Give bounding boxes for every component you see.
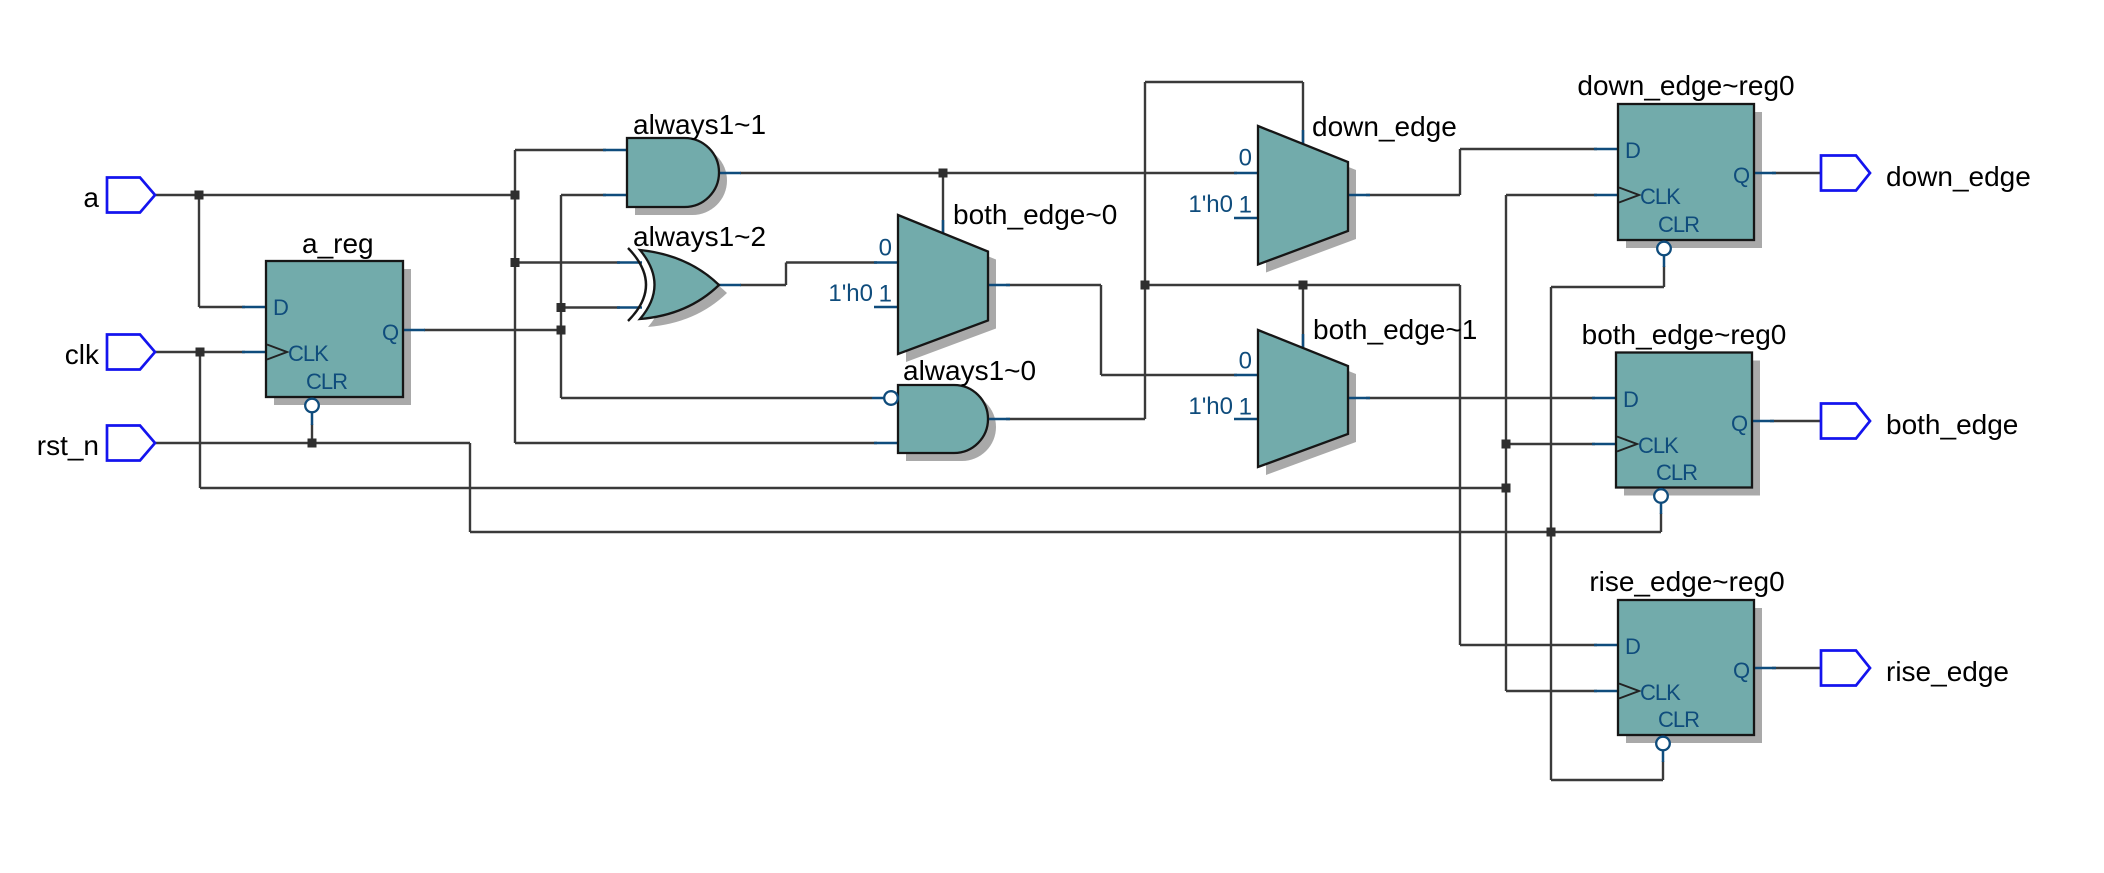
svg-text:always1~2: always1~2 bbox=[633, 221, 766, 252]
stub down_edge~reg0 CLK pin bbox=[1594, 194, 1618, 197]
svg-text:Q: Q bbox=[1731, 411, 1748, 436]
net both_edge~0 out: wire from mux output bbox=[1006, 284, 1101, 286]
svg-text:always1~0: always1~0 bbox=[903, 355, 1036, 386]
svg-text:1'h0: 1'h0 bbox=[1188, 191, 1233, 218]
both_edge~reg0 CLR bubble bbox=[1654, 489, 1668, 503]
junction a-net / D drop bbox=[195, 191, 204, 200]
net a: vertical bus x=515 from AND row to always1~0 row bbox=[514, 150, 516, 443]
svg-text:CLR: CLR bbox=[306, 369, 347, 394]
svg-text:0: 0 bbox=[1239, 145, 1252, 172]
junction Q-net / Q bus bbox=[557, 326, 566, 335]
rise_edge~reg0 clock triangle bbox=[1619, 684, 1639, 699]
stub AND always1~0 output bbox=[988, 418, 1010, 421]
net rst_n: vertical branch x=1551 between down and rise CLR rows bbox=[1550, 287, 1552, 780]
net clk: wire from port clk to a_reg CLK pin bbox=[155, 351, 245, 353]
flipflop both_edge~reg0 body bbox=[1616, 353, 1752, 488]
stub mux down_edge input 1 bbox=[1234, 217, 1258, 220]
svg-text:rise_edge~reg0: rise_edge~reg0 bbox=[1589, 566, 1784, 597]
net both_edge~reg0.Q: wire to output port both_edge bbox=[1770, 420, 1821, 422]
input port rst_n bbox=[107, 426, 155, 461]
stub mux both_edge~1 input 1 bbox=[1234, 418, 1258, 421]
svg-text:a_reg: a_reg bbox=[302, 228, 374, 259]
stub XOR always1~2 input 2 bbox=[617, 306, 642, 309]
down_edge~reg0 clock triangle bbox=[1619, 188, 1639, 203]
svg-text:CLK: CLK bbox=[288, 341, 329, 366]
net rise_edge~reg0.Q: wire to output port rise_edge bbox=[1772, 667, 1821, 669]
stub a_reg CLK pin bbox=[242, 351, 266, 354]
stub mux both_edge~1 input 0 bbox=[1234, 374, 1258, 377]
svg-text:CLK: CLK bbox=[1640, 680, 1681, 705]
net rst_n: stem from down_edge~reg0 CLR bubble bbox=[1663, 266, 1665, 287]
junction clk-net / both_edge~reg0 CLK branch bbox=[1502, 440, 1511, 449]
net rst_n: horizontal to down_edge~reg0 CLR stem bbox=[1551, 286, 1664, 288]
net both_edge~0 out: vertical drop x=1101 bbox=[1100, 285, 1102, 375]
net always1~0 out: horizontal branch y=285 to x=1460 bbox=[1145, 284, 1460, 286]
svg-text:D: D bbox=[1623, 387, 1638, 412]
stub both_edge~reg0 D pin bbox=[1592, 397, 1616, 400]
net clk: long horizontal trunk y=488 bbox=[200, 487, 1506, 489]
stub mux down_edge output bbox=[1348, 194, 1370, 197]
stub AND always1~0 inverted input bbox=[872, 397, 884, 400]
svg-text:0: 0 bbox=[1239, 348, 1252, 375]
svg-text:CLK: CLK bbox=[1638, 433, 1679, 458]
stub down_edge~reg0 Q pin bbox=[1754, 172, 1776, 175]
net a_reg.Q: branch to AND always1~1 input 2 bbox=[561, 194, 606, 196]
net rst_n: riser to both_edge~reg0 CLR bubble bbox=[1660, 513, 1662, 532]
shadow of AND gate always1~1 bbox=[635, 146, 727, 215]
svg-text:1: 1 bbox=[879, 281, 892, 308]
junction clk-net / trunk meets riser bbox=[1502, 484, 1511, 493]
stub both_edge~reg0 CLR bubble bbox=[1660, 502, 1663, 514]
net a: wire branch to AND always1~1 input 1 bbox=[515, 149, 606, 151]
svg-text:CLR: CLR bbox=[1658, 212, 1699, 237]
shadow of flipflop both_edge~reg0 bbox=[1624, 361, 1760, 496]
svg-text:both_edge~1: both_edge~1 bbox=[1313, 314, 1477, 345]
net clk: wire into rise_edge~reg0 CLK pin bbox=[1506, 690, 1597, 692]
net rst_n: long horizontal trunk y=532 bbox=[470, 531, 1661, 533]
svg-text:clk: clk bbox=[65, 339, 100, 370]
net rst_n: horizontal to rise_edge~reg0 CLR stem y=780 bbox=[1551, 779, 1663, 781]
stub both_edge~reg0 CLK pin bbox=[1592, 443, 1616, 446]
stub AND always1~0 input 2 bbox=[874, 442, 898, 445]
stub AND always1~1 input 2 bbox=[603, 194, 628, 197]
svg-text:Q: Q bbox=[1733, 163, 1750, 188]
stub both_edge~reg0 Q pin bbox=[1752, 420, 1774, 423]
net always1~1 out: wire from AND output to mux down_edge input 0 bbox=[740, 172, 1237, 174]
net always1~0 out: vertical drop x=1460 to rise D row bbox=[1459, 285, 1461, 645]
AND gate always1~1 body bbox=[627, 138, 719, 207]
stub rise_edge~reg0 CLK pin bbox=[1594, 690, 1618, 693]
net always1~0 out: vertical riser x=1145 bbox=[1144, 82, 1146, 419]
svg-text:both_edge: both_edge bbox=[1886, 409, 2018, 440]
net a_reg.Q: wire from Q pin to vertical bus x=561 bbox=[424, 329, 561, 331]
svg-text:rise_edge: rise_edge bbox=[1886, 656, 2009, 687]
net always1~2 out: wire from XOR output bbox=[740, 284, 786, 286]
mux both_edge~0 body bbox=[898, 215, 988, 354]
svg-text:CLR: CLR bbox=[1658, 707, 1699, 732]
stub XOR always1~2 input 1 bbox=[617, 261, 642, 264]
mux down_edge body bbox=[1258, 126, 1348, 265]
svg-text:1: 1 bbox=[1239, 192, 1252, 219]
stub rise_edge~reg0 Q pin bbox=[1754, 667, 1776, 670]
net a: wire from port a to junction column x=515 bbox=[155, 194, 515, 196]
flipflop rise_edge~reg0 body bbox=[1618, 600, 1754, 735]
rise_edge~reg0 CLR bubble bbox=[1656, 737, 1670, 751]
AND gate always1~0 body bbox=[898, 385, 988, 453]
stub a_reg CLR bubble bbox=[311, 412, 314, 425]
net a_reg.Q: branch to XOR always1~2 input 2 bbox=[561, 306, 620, 308]
net a: wire vertical drop to a_reg D row bbox=[198, 195, 200, 307]
stub mux both_edge~0 input 1 bbox=[874, 306, 898, 309]
svg-text:always1~1: always1~1 bbox=[633, 109, 766, 140]
shadow of XOR gate always1~2 bbox=[648, 258, 727, 327]
shadow of AND gate always1~0 bbox=[906, 393, 996, 461]
svg-text:both_edge~reg0: both_edge~reg0 bbox=[1582, 319, 1787, 350]
net always1~0 out: wire from AND output to riser x=1145 bbox=[1006, 418, 1145, 420]
svg-text:both_edge~0: both_edge~0 bbox=[953, 199, 1117, 230]
svg-text:down_edge: down_edge bbox=[1312, 111, 1457, 142]
junction rst-net / a_reg CLR bbox=[308, 439, 317, 448]
net clk: vertical drop x=200 to clk trunk row bbox=[199, 352, 201, 488]
shadow of mux both_edge~0 bbox=[906, 223, 996, 362]
net always1~0 out: top horizontal y=82 bbox=[1145, 81, 1303, 83]
net always1~2 out: jog up bbox=[785, 263, 787, 286]
output port both_edge bbox=[1821, 404, 1870, 439]
net always1~2 out: wire into mux both_edge~0 input 0 bbox=[786, 261, 877, 263]
net rst_n: wire from port rst_n to corner x=470 bbox=[155, 442, 470, 444]
a_reg CLR bubble bbox=[305, 399, 319, 413]
XOR gate always1~2 body bbox=[640, 250, 719, 319]
net clk: wire into both_edge~reg0 CLK pin bbox=[1506, 443, 1595, 445]
shadow of flipflop rise_edge~reg0 bbox=[1626, 608, 1762, 743]
shadow of a_reg bbox=[274, 269, 411, 405]
stub mux both_edge~0 output bbox=[988, 284, 1010, 287]
net clk: vertical riser x=1506 spanning all three flipflops bbox=[1505, 195, 1507, 691]
svg-text:down_edge~reg0: down_edge~reg0 bbox=[1577, 70, 1794, 101]
net a: wire branch to XOR always1~2 input 1 bbox=[515, 261, 620, 263]
net both_edge~0 out: wire into mux both_edge~1 input 0 bbox=[1101, 374, 1237, 376]
stub a_reg D pin bbox=[242, 306, 266, 309]
stub rise_edge~reg0 D pin bbox=[1594, 644, 1618, 647]
net rst_n: stem from a_reg CLR bubble down to rst wire bbox=[311, 424, 313, 443]
shadow of mux down_edge bbox=[1266, 134, 1356, 273]
always1~0 inverter bubble bbox=[884, 391, 898, 405]
stub mux both_edge~0 select bbox=[942, 220, 945, 234]
net always1~0 out: select drop to mux both_edge~1 bbox=[1302, 285, 1304, 348]
mux both_edge~1 body bbox=[1258, 330, 1348, 467]
net always1~1 out: select drop to mux both_edge~0 bbox=[942, 173, 944, 234]
net both_edge~1 mux out: wire into both_edge~reg0 D pin bbox=[1366, 397, 1595, 399]
XOR always1~2 input arc bbox=[628, 248, 646, 321]
net a: wire branch to AND always1~0 input 2 bbox=[515, 442, 877, 444]
junction always1~0 out / y=285 branch bbox=[1141, 281, 1150, 290]
net rst_n: vertical drop x=470 bbox=[469, 443, 471, 532]
net always1~0 out: select drop to mux down_edge bbox=[1302, 82, 1304, 144]
output port down_edge bbox=[1821, 156, 1870, 191]
junction Q-net / XOR in2 branch bbox=[557, 303, 566, 312]
stub mux down_edge input 0 bbox=[1234, 172, 1258, 175]
output port rise_edge bbox=[1821, 651, 1870, 686]
svg-text:CLR: CLR bbox=[1656, 460, 1697, 485]
a_reg clock triangle bbox=[267, 345, 287, 360]
stub mux down_edge select bbox=[1302, 130, 1305, 144]
stub mux both_edge~1 output bbox=[1348, 397, 1370, 400]
svg-text:1'h0: 1'h0 bbox=[828, 280, 873, 307]
junction always1~0 out / both_edge~1 select bbox=[1299, 281, 1308, 290]
svg-text:Q: Q bbox=[382, 320, 399, 345]
net down_edge mux out: jog up x=1460 bbox=[1459, 149, 1461, 195]
flipflop a_reg body bbox=[266, 261, 403, 397]
stub XOR always1~2 output bbox=[719, 284, 741, 287]
down_edge~reg0 CLR bubble bbox=[1657, 242, 1671, 256]
svg-text:D: D bbox=[1625, 634, 1640, 659]
svg-text:D: D bbox=[1625, 138, 1640, 163]
stub mux both_edge~1 select bbox=[1302, 334, 1305, 348]
net rst_n: stem from rise_edge~reg0 CLR bubble bbox=[1662, 761, 1664, 780]
net a_reg.Q: branch to AND always1~0 inverted input bbox=[561, 397, 872, 399]
stub down_edge~reg0 CLR bubble bbox=[1663, 255, 1666, 267]
stub down_edge~reg0 D pin bbox=[1594, 148, 1618, 151]
stub a_reg Q pin bbox=[403, 329, 425, 332]
stub mux both_edge~0 input 0 bbox=[874, 261, 898, 264]
svg-text:down_edge: down_edge bbox=[1886, 161, 2031, 192]
stub AND always1~1 output bbox=[719, 172, 741, 175]
shadow of flipflop down_edge~reg0 bbox=[1626, 112, 1762, 248]
stub rise_edge~reg0 CLR bubble bbox=[1662, 750, 1665, 762]
svg-text:1: 1 bbox=[1239, 394, 1252, 421]
stub AND always1~1 input 1 bbox=[603, 149, 628, 152]
both_edge~reg0 clock triangle bbox=[1617, 437, 1637, 452]
junction always1~1 out / both_edge~0 select bbox=[939, 169, 948, 178]
net clk: wire into down_edge~reg0 CLK pin bbox=[1506, 194, 1597, 196]
input port a bbox=[107, 178, 155, 213]
net a: wire into a_reg D pin bbox=[199, 306, 245, 308]
net down_edge mux out: wire from mux output bbox=[1366, 194, 1460, 196]
net always1~0 out: wire into rise_edge~reg0 D pin bbox=[1460, 644, 1597, 646]
svg-text:D: D bbox=[273, 295, 288, 320]
net a_reg.Q: vertical bus x=561 bbox=[560, 195, 562, 398]
junction rst-net / trunk meets x=1551 branch bbox=[1547, 528, 1556, 537]
svg-text:1'h0: 1'h0 bbox=[1188, 393, 1233, 420]
net down_edge~reg0.Q: wire to output port down_edge bbox=[1772, 172, 1821, 174]
net down_edge mux out: wire into down_edge~reg0 D pin bbox=[1460, 148, 1597, 150]
junction a-net / bus x=515 bbox=[511, 191, 520, 200]
junction a-net / XOR in1 branch bbox=[511, 258, 520, 267]
svg-text:rst_n: rst_n bbox=[37, 430, 99, 461]
svg-text:Q: Q bbox=[1733, 658, 1750, 683]
junction clk-net / clk drop bbox=[196, 348, 205, 357]
flipflop down_edge~reg0 body bbox=[1618, 104, 1754, 240]
shadow of mux both_edge~1 bbox=[1266, 338, 1356, 475]
svg-text:a: a bbox=[83, 182, 99, 213]
input port clk bbox=[107, 335, 155, 370]
svg-text:CLK: CLK bbox=[1640, 184, 1681, 209]
svg-text:0: 0 bbox=[879, 235, 892, 262]
